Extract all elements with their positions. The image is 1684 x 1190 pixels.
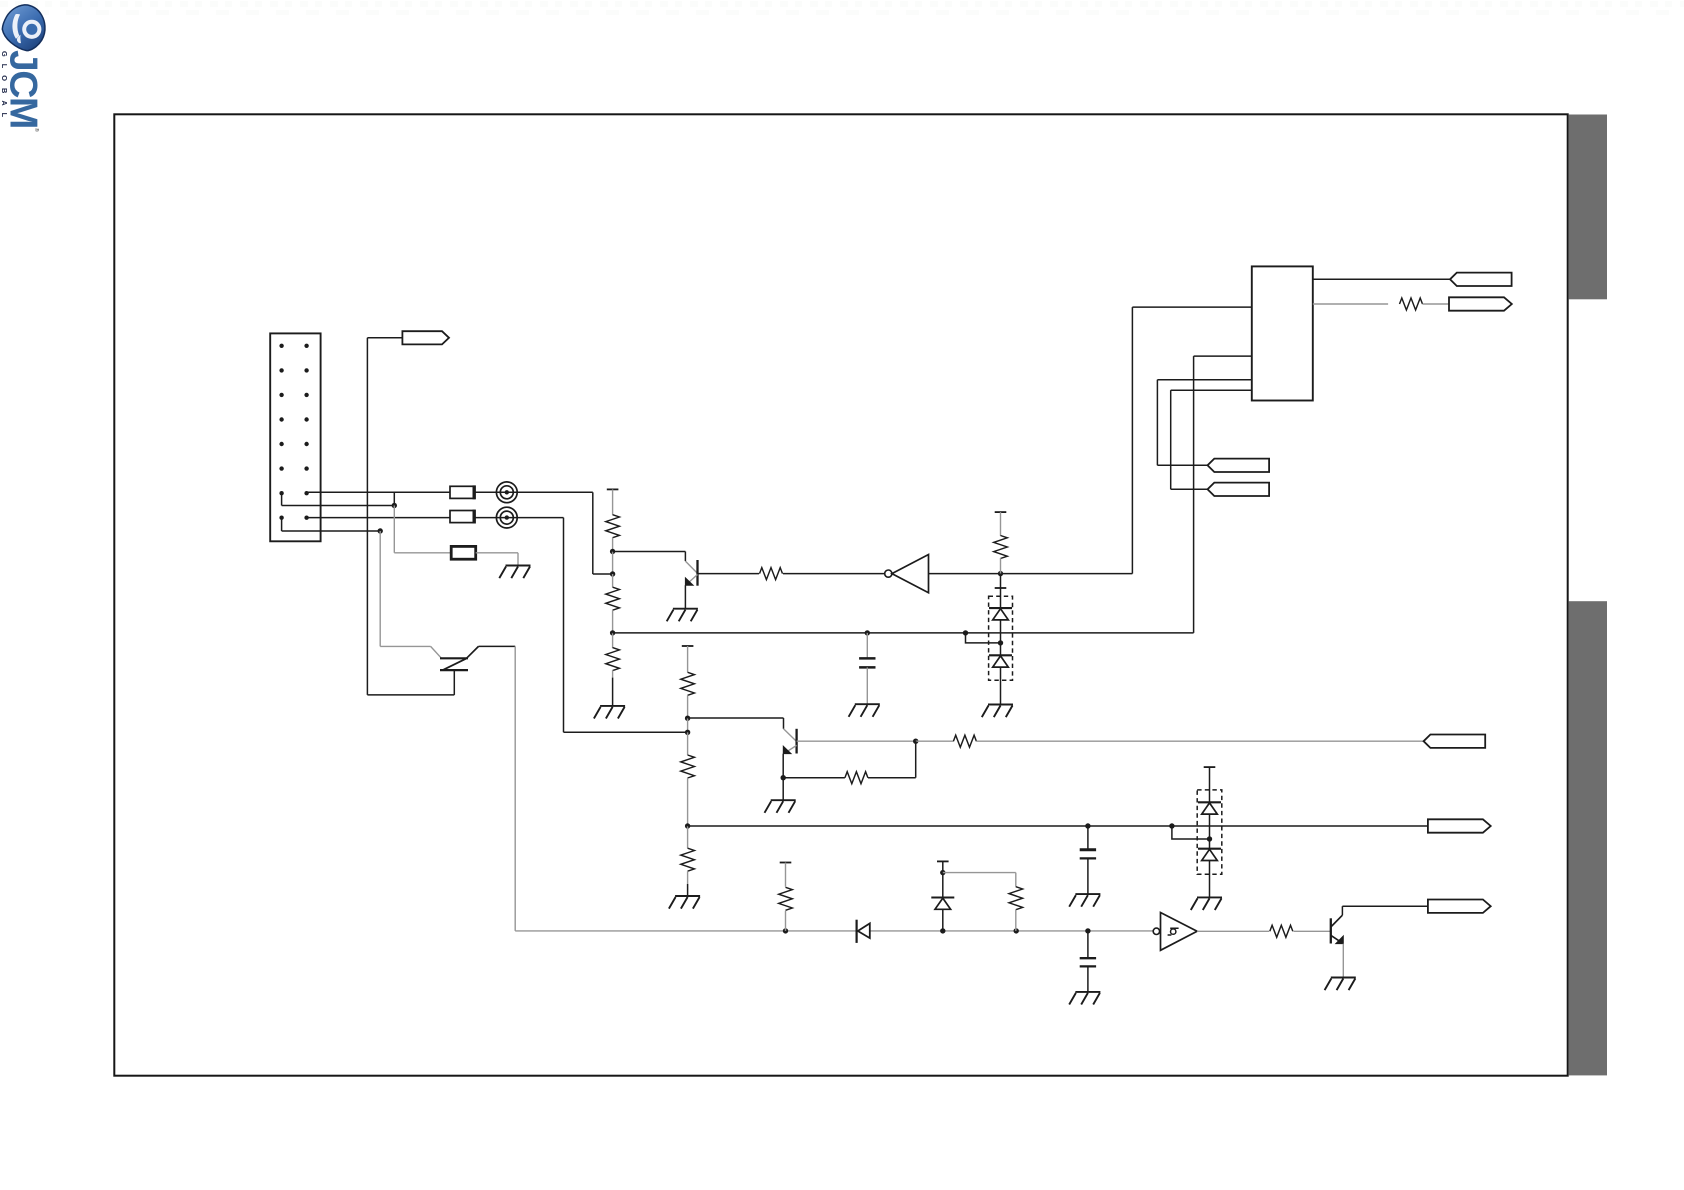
resistor R17 (1270, 925, 1293, 937)
wire IC pin5 (1157, 379, 1251, 381)
wire out bus y826 (688, 825, 1428, 827)
node J10 (685, 716, 690, 721)
wire C3 bottom lead (1087, 966, 1089, 992)
resistor R11 (681, 848, 695, 871)
wire R5 to node J5 (612, 610, 614, 633)
ground G3 (667, 609, 698, 622)
zener ZD5 (1198, 848, 1221, 850)
jack JK2 inner (500, 511, 513, 524)
wire R11 tail (687, 871, 689, 884)
ground G10 (1069, 894, 1100, 907)
ground G4 (765, 800, 796, 813)
wire J10 to Q2 (688, 717, 784, 719)
wire T2 lead (1000, 512, 1002, 536)
node J1 (392, 503, 397, 508)
wire ZD5 to ground (1209, 861, 1211, 898)
wire R13 to TP6 (976, 740, 1423, 742)
transistor Q1 emitter slant (686, 575, 698, 585)
wire IC pin4 (1194, 355, 1252, 357)
node J22 (940, 870, 945, 875)
resistor R8 (760, 568, 783, 580)
wire J11 to R10 (687, 732, 689, 755)
terminal cap T4 (682, 645, 694, 647)
resistor R16 (1400, 298, 1423, 310)
resistor R5 (606, 587, 620, 610)
capacitor C3 plate2 (1080, 965, 1096, 967)
wire IC pin5 across (1157, 464, 1207, 466)
jack JK2 pin (505, 515, 509, 519)
node J7 (998, 640, 1003, 645)
right side page tab lower (1569, 601, 1607, 1075)
wire Q2 base gray (797, 740, 916, 742)
terminal TP3 (1449, 297, 1512, 310)
wire J7 to ZD2 (1000, 643, 1002, 655)
inverter U2 hysteresis glyph (1168, 928, 1179, 935)
resistor R4 (606, 515, 620, 538)
wire R17 to Q3 (1293, 930, 1330, 932)
wire C2 top lead (1087, 826, 1089, 850)
transistor Q1 base bar (696, 560, 698, 586)
wire U1 out up to IC (1131, 307, 1133, 573)
node J4 (610, 571, 615, 576)
node J8 (963, 630, 968, 635)
wire U1 output (929, 573, 1133, 575)
transistor Q3 base bar (1330, 918, 1332, 943)
resistor R12 (845, 772, 868, 784)
wire J4 to R5 (612, 574, 614, 587)
node J3 (610, 549, 615, 554)
transistor Q1 collector slant (685, 561, 697, 573)
node J16 (1169, 823, 1174, 828)
wire C2 bottom lead (1087, 858, 1089, 894)
wire IC pin2 b (1423, 303, 1450, 305)
wire right vertical long (514, 646, 516, 931)
wire R7 to J6 (1000, 558, 1002, 574)
jack JK1 outer (496, 482, 517, 503)
wire Q4 base lead down (453, 670, 455, 695)
jack JK1 pin (505, 490, 509, 494)
wire step J16 to J17 (1172, 826, 1210, 839)
wire Q3 collector up (1341, 906, 1343, 915)
IC block U3 (1252, 266, 1313, 400)
diode D1 triangle (858, 923, 870, 938)
wire flag horizontal (367, 337, 402, 339)
schematic sheet frame (114, 114, 1567, 1075)
wire T3 through box (1000, 588, 1002, 608)
transistor Q4 gate diagonal (444, 659, 467, 670)
wire IC pin4 drop (1193, 356, 1195, 633)
capacitor C2 plate1 (1080, 848, 1096, 851)
node J15 (1085, 823, 1090, 828)
wire Q2 collector drop (783, 718, 785, 729)
wire flag vertical (366, 338, 368, 695)
right side page tab upper (1569, 115, 1607, 300)
wire J5 to R6 (612, 633, 614, 648)
wire IC pin6 drop (1170, 390, 1172, 489)
resistor R2 (box) (450, 511, 475, 523)
node J6 (998, 571, 1003, 576)
faint perforation pattern along top edge (0, 1, 1684, 7)
wire ground drop (517, 553, 519, 566)
connector CN1 pins (279, 344, 308, 520)
wire T1 lead (612, 489, 614, 514)
wire bottom bus (515, 930, 1153, 932)
connector CN1 body (270, 333, 320, 541)
wire row7 corner down (592, 492, 594, 574)
wire U2 output (1197, 930, 1269, 932)
wire Q1 base (698, 573, 760, 575)
wire R9 to J10 (687, 695, 689, 718)
node J20 (1014, 928, 1019, 933)
wire Q3 collector out (1342, 905, 1428, 907)
terminal cap T1 (607, 488, 619, 490)
wire J3 to Q1 collector (613, 551, 686, 553)
transistor Q3 emitter arrow (1336, 936, 1344, 944)
node J19 (940, 928, 945, 933)
diode D1 cathode bar (855, 920, 857, 943)
wire IC pin3 (1132, 306, 1251, 308)
inverter U2 triangle (1161, 913, 1198, 951)
capacitor C3 plate1 (1080, 957, 1096, 959)
terminal TP7 (1428, 819, 1491, 832)
resistor R15 (1009, 887, 1023, 910)
inverter U1 triangle (892, 555, 929, 593)
wire row8 pin to corner (307, 517, 564, 519)
wire R14 to J18 (785, 911, 787, 931)
wire T4 lead (687, 646, 689, 672)
ground G8 (669, 896, 700, 909)
terminal cap T3 (995, 587, 1007, 589)
transistor Q1 emitter arrow (685, 578, 693, 585)
wire row7 pin to corner (307, 491, 593, 493)
wire ground lead G8 (687, 884, 689, 896)
wire row8 col1 stub down (281, 518, 283, 531)
ground G6 (982, 705, 1013, 718)
wire R15 top lead (1015, 873, 1017, 887)
wire Q4 bottom horizontal (367, 694, 454, 696)
terminal TP2 (1450, 273, 1512, 286)
terminal TP8 (1428, 900, 1491, 913)
wire J22 across (943, 872, 1016, 874)
wire R6 tail (612, 670, 614, 678)
wire T5 lead (1209, 767, 1211, 802)
ground G2 (594, 706, 625, 719)
terminal flag TP1 (402, 331, 449, 344)
wire row8 col1 horizontal (282, 530, 381, 532)
wire IC pin2 a (1313, 303, 1388, 305)
zener ZD1 (989, 607, 1012, 609)
wire ground lead (612, 678, 614, 706)
wire J14 drop (915, 741, 917, 778)
wire J12 to R11 (687, 826, 689, 848)
terminal cap T7 (937, 860, 949, 862)
wire R4 to node (612, 538, 614, 552)
ground G9 (849, 704, 880, 717)
inverter U2 bubble (1153, 928, 1159, 934)
jack JK2 outer (496, 507, 517, 528)
JCM Global logo (rotated 90deg) (0, 2, 48, 138)
resistor R10 (681, 755, 695, 778)
terminal cap T6 (780, 862, 792, 864)
wire T7 lead (942, 861, 944, 872)
transistor Q2 base bar (795, 729, 797, 754)
node J2 (378, 528, 383, 533)
wire ZD1 to node J7 (1000, 620, 1002, 643)
transistor Q2 emitter arrow (783, 746, 791, 753)
suppressor box outline ZD4/ZD5 (1197, 790, 1222, 874)
wire Q3 emitter down (1342, 944, 1344, 978)
wire C3 top lead (1087, 931, 1089, 958)
wire R10 to J12 (687, 778, 689, 826)
node J17 (1207, 836, 1212, 841)
wire R12 to J13 (783, 777, 845, 779)
transistor Q4 upper bar (440, 657, 468, 659)
node J5 (610, 630, 615, 635)
wire ZD4 to J17 (1209, 814, 1211, 839)
wire J22 to ZD3 (942, 873, 944, 898)
wire row7 col1 horizontal (282, 505, 395, 507)
transistor Q3 collector slant (1331, 915, 1343, 927)
resistor R13 (953, 735, 976, 747)
wire J2 down to Q4 (379, 531, 381, 646)
wire into Q4 emitter side (380, 645, 430, 647)
wire J6 down to T3 (1000, 574, 1002, 588)
resistor R14 (779, 887, 793, 910)
wire row8 bottom to node (564, 731, 688, 733)
wire IC pin6 across (1171, 488, 1208, 490)
node J14 (913, 739, 918, 744)
wire feedback row (868, 777, 916, 779)
wire J10 to J11 (687, 718, 689, 732)
terminal TP5 (1208, 483, 1270, 496)
transistor Q2 emitter slant (785, 745, 797, 753)
transistor Q3 emitter slant (1331, 935, 1342, 943)
node J18 (783, 928, 788, 933)
terminal cap T2 (995, 511, 1007, 513)
wire Q2 emitter down (782, 754, 784, 778)
wire J17 to ZD5 (1209, 839, 1211, 849)
wire Q2 emitter to ground (782, 778, 784, 801)
zener ZD4 (1198, 801, 1221, 803)
wire J1 down to R3 row (393, 506, 395, 553)
resistor R7 (994, 536, 1008, 559)
wire ZD2 to ground (1000, 667, 1002, 704)
transistor Q2 collector slant (784, 729, 797, 742)
ground G5 (1325, 978, 1356, 991)
capacitor C1 plate2 (859, 666, 875, 669)
resistor R3 (box) (451, 546, 476, 559)
wire Q2 base cont (916, 740, 954, 742)
transistor Q4 emitter slant (431, 646, 442, 658)
capacitor C1 plate1 (859, 657, 875, 660)
jack JK1 inner (500, 486, 513, 499)
resistor R6 (606, 648, 620, 671)
terminal TP4 (1208, 459, 1270, 472)
wire mid bus (613, 632, 1194, 634)
wire Q1 collector drop (684, 552, 686, 562)
wire ZD3 to J19 (942, 909, 944, 931)
ground G11 (1069, 992, 1100, 1005)
terminal TP6 (1424, 735, 1486, 748)
wire row7 col1 stub down (281, 492, 283, 505)
wire R8 to inverter U1 (783, 573, 885, 575)
wire row7 tap stub (393, 492, 395, 505)
ground G7 (1191, 897, 1222, 910)
wire Q1 emitter down (684, 585, 686, 608)
node J12 (685, 823, 690, 828)
resistor R9 (681, 672, 695, 695)
wire row8 corner down (563, 518, 565, 733)
suppressor box outline ZD1/ZD2 (989, 596, 1013, 680)
ground G1 (499, 566, 530, 579)
wire Q4 to right corner (479, 645, 516, 647)
transistor Q4 collector slant (467, 646, 479, 658)
wire J3 to J4 (612, 552, 614, 575)
wire IC pin6 (1171, 389, 1252, 391)
transistor Q4 lower bar (440, 669, 468, 671)
resistor R1 (box) (450, 486, 475, 498)
zener ZD2 (989, 654, 1012, 656)
wire T6 lead (785, 863, 787, 887)
node J21 (1085, 928, 1090, 933)
wire IC pin1 (1313, 278, 1450, 280)
wire IC pin5 drop (1156, 380, 1158, 466)
node J9 (865, 630, 870, 635)
wire R15 to J20 (1015, 910, 1017, 931)
zener ZD3 (931, 896, 954, 898)
terminal cap T5 (1204, 766, 1216, 768)
node J11 (685, 730, 690, 735)
wire J1 row to R3 (394, 552, 451, 554)
wire C1 top lead (866, 633, 868, 659)
wire C1 bottom lead (866, 667, 868, 704)
inverter U1 bubble (885, 570, 892, 577)
wire corner to node R4-R5 (593, 573, 613, 575)
wire step from main line (966, 633, 1001, 643)
emblem pick shape (2, 5, 45, 51)
capacitor C2 plate2 (1080, 857, 1096, 859)
node J13 (781, 775, 786, 780)
wire R3 to ground lead (476, 552, 518, 554)
